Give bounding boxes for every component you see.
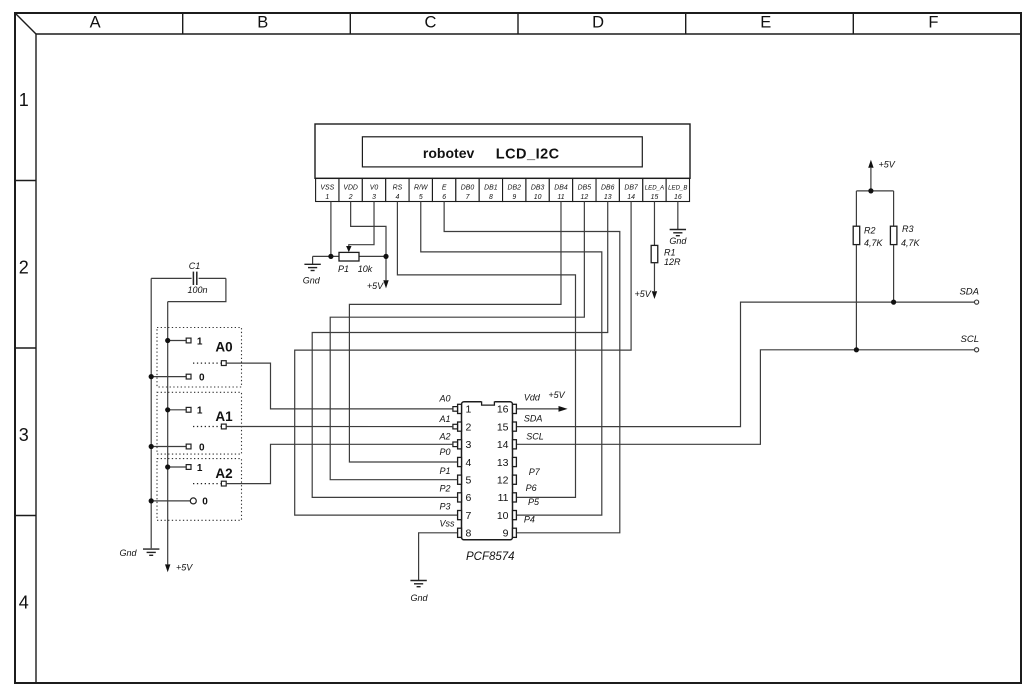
svg-text:DB2: DB2 — [508, 185, 522, 192]
svg-text:DB4: DB4 — [554, 185, 568, 192]
svg-text:P3: P3 — [440, 502, 451, 512]
svg-text:B: B — [257, 14, 268, 32]
svg-text:5: 5 — [466, 475, 472, 487]
svg-text:A: A — [90, 14, 101, 32]
svg-text:4,7K: 4,7K — [901, 238, 921, 248]
svg-text:6: 6 — [442, 194, 446, 201]
svg-text:DB3: DB3 — [531, 185, 545, 192]
svg-text:P1: P1 — [440, 466, 451, 476]
svg-text:PCF8574: PCF8574 — [466, 551, 515, 563]
svg-text:+5V: +5V — [176, 563, 193, 573]
svg-text:16: 16 — [674, 194, 682, 201]
svg-text:15: 15 — [651, 194, 659, 201]
svg-text:1: 1 — [466, 404, 472, 416]
svg-text:5: 5 — [419, 194, 423, 201]
svg-text:DB1: DB1 — [484, 185, 498, 192]
svg-text:100n: 100n — [187, 285, 207, 295]
svg-text:Vss: Vss — [440, 519, 456, 529]
svg-text:12R: 12R — [664, 257, 681, 267]
svg-text:D: D — [592, 14, 604, 32]
svg-text:13: 13 — [497, 457, 509, 469]
svg-text:A0: A0 — [215, 339, 232, 354]
svg-text:RS: RS — [393, 185, 403, 192]
svg-text:9: 9 — [503, 528, 509, 540]
svg-text:13: 13 — [604, 194, 612, 201]
svg-text:3: 3 — [19, 425, 29, 445]
svg-text:Vdd: Vdd — [524, 393, 541, 403]
svg-text:+5V: +5V — [879, 160, 896, 170]
svg-text:12: 12 — [581, 194, 589, 201]
svg-text:14: 14 — [627, 194, 635, 201]
svg-text:10: 10 — [497, 510, 509, 522]
svg-text:9: 9 — [512, 194, 516, 201]
svg-text:+5V: +5V — [367, 281, 384, 291]
svg-text:DB5: DB5 — [578, 185, 592, 192]
svg-text:R3: R3 — [902, 224, 914, 234]
svg-text:1: 1 — [197, 336, 203, 347]
svg-text:3: 3 — [372, 194, 376, 201]
svg-text:14: 14 — [497, 439, 509, 451]
svg-text:Gnd: Gnd — [410, 593, 428, 603]
svg-text:1: 1 — [197, 406, 203, 417]
svg-text:10k: 10k — [358, 264, 373, 274]
svg-text:Gnd: Gnd — [119, 548, 137, 558]
svg-text:A2: A2 — [215, 466, 232, 481]
svg-text:R/W: R/W — [414, 185, 429, 192]
svg-text:E: E — [442, 185, 447, 192]
svg-text:VSS: VSS — [320, 185, 334, 192]
svg-text:11: 11 — [498, 492, 509, 504]
svg-text:4: 4 — [466, 457, 472, 469]
svg-text:P6: P6 — [526, 483, 537, 493]
svg-text:4,7K: 4,7K — [864, 238, 884, 248]
svg-text:+5V: +5V — [635, 289, 652, 299]
svg-text:VDD: VDD — [343, 185, 358, 192]
svg-text:2: 2 — [19, 258, 29, 278]
svg-text:2: 2 — [466, 421, 472, 433]
svg-text:0: 0 — [202, 497, 208, 508]
svg-text:1: 1 — [197, 463, 203, 474]
svg-text:15: 15 — [497, 421, 509, 433]
svg-text:8: 8 — [489, 194, 493, 201]
svg-text:robotev: robotev — [423, 145, 475, 161]
svg-text:LCD_I2C: LCD_I2C — [496, 147, 560, 163]
svg-text:DB0: DB0 — [461, 185, 475, 192]
svg-text:7: 7 — [466, 510, 472, 522]
svg-text:V0: V0 — [370, 185, 379, 192]
svg-text:SDA: SDA — [959, 287, 979, 298]
svg-text:+5V: +5V — [548, 390, 565, 400]
svg-text:A1: A1 — [215, 409, 233, 424]
svg-text:11: 11 — [557, 194, 564, 201]
svg-text:P2: P2 — [440, 484, 451, 494]
svg-text:SDA: SDA — [524, 414, 543, 424]
svg-text:1: 1 — [19, 90, 29, 110]
svg-text:R1: R1 — [664, 247, 676, 257]
svg-text:R2: R2 — [864, 226, 876, 236]
svg-text:A1: A1 — [439, 414, 451, 424]
svg-text:E: E — [760, 14, 771, 32]
svg-text:0: 0 — [199, 372, 205, 383]
svg-text:Gnd: Gnd — [669, 236, 687, 246]
svg-text:2: 2 — [348, 194, 353, 201]
svg-text:DB7: DB7 — [624, 185, 639, 192]
svg-text:1: 1 — [325, 194, 329, 201]
svg-text:LED_A: LED_A — [645, 185, 664, 192]
svg-text:A2: A2 — [439, 432, 451, 442]
svg-text:C: C — [424, 14, 436, 32]
svg-text:12: 12 — [497, 475, 509, 487]
svg-text:16: 16 — [497, 404, 509, 416]
svg-text:SCL: SCL — [526, 431, 544, 441]
svg-text:C1: C1 — [189, 261, 201, 271]
svg-text:4: 4 — [395, 194, 399, 201]
svg-text:P4: P4 — [524, 515, 535, 525]
svg-text:P0: P0 — [440, 447, 451, 457]
svg-text:6: 6 — [466, 492, 472, 504]
svg-text:LED_B: LED_B — [668, 185, 687, 192]
svg-text:P5: P5 — [528, 497, 540, 507]
svg-text:Gnd: Gnd — [303, 275, 321, 285]
svg-text:F: F — [928, 14, 938, 32]
svg-text:10: 10 — [534, 194, 542, 201]
svg-text:P7: P7 — [529, 467, 541, 477]
svg-text:SCL: SCL — [961, 334, 979, 345]
svg-text:3: 3 — [466, 439, 472, 451]
svg-text:DB6: DB6 — [601, 185, 615, 192]
svg-text:P1: P1 — [338, 264, 349, 274]
svg-text:8: 8 — [466, 528, 472, 540]
svg-text:4: 4 — [19, 593, 29, 613]
svg-text:A0: A0 — [439, 393, 451, 403]
svg-text:0: 0 — [199, 442, 205, 453]
